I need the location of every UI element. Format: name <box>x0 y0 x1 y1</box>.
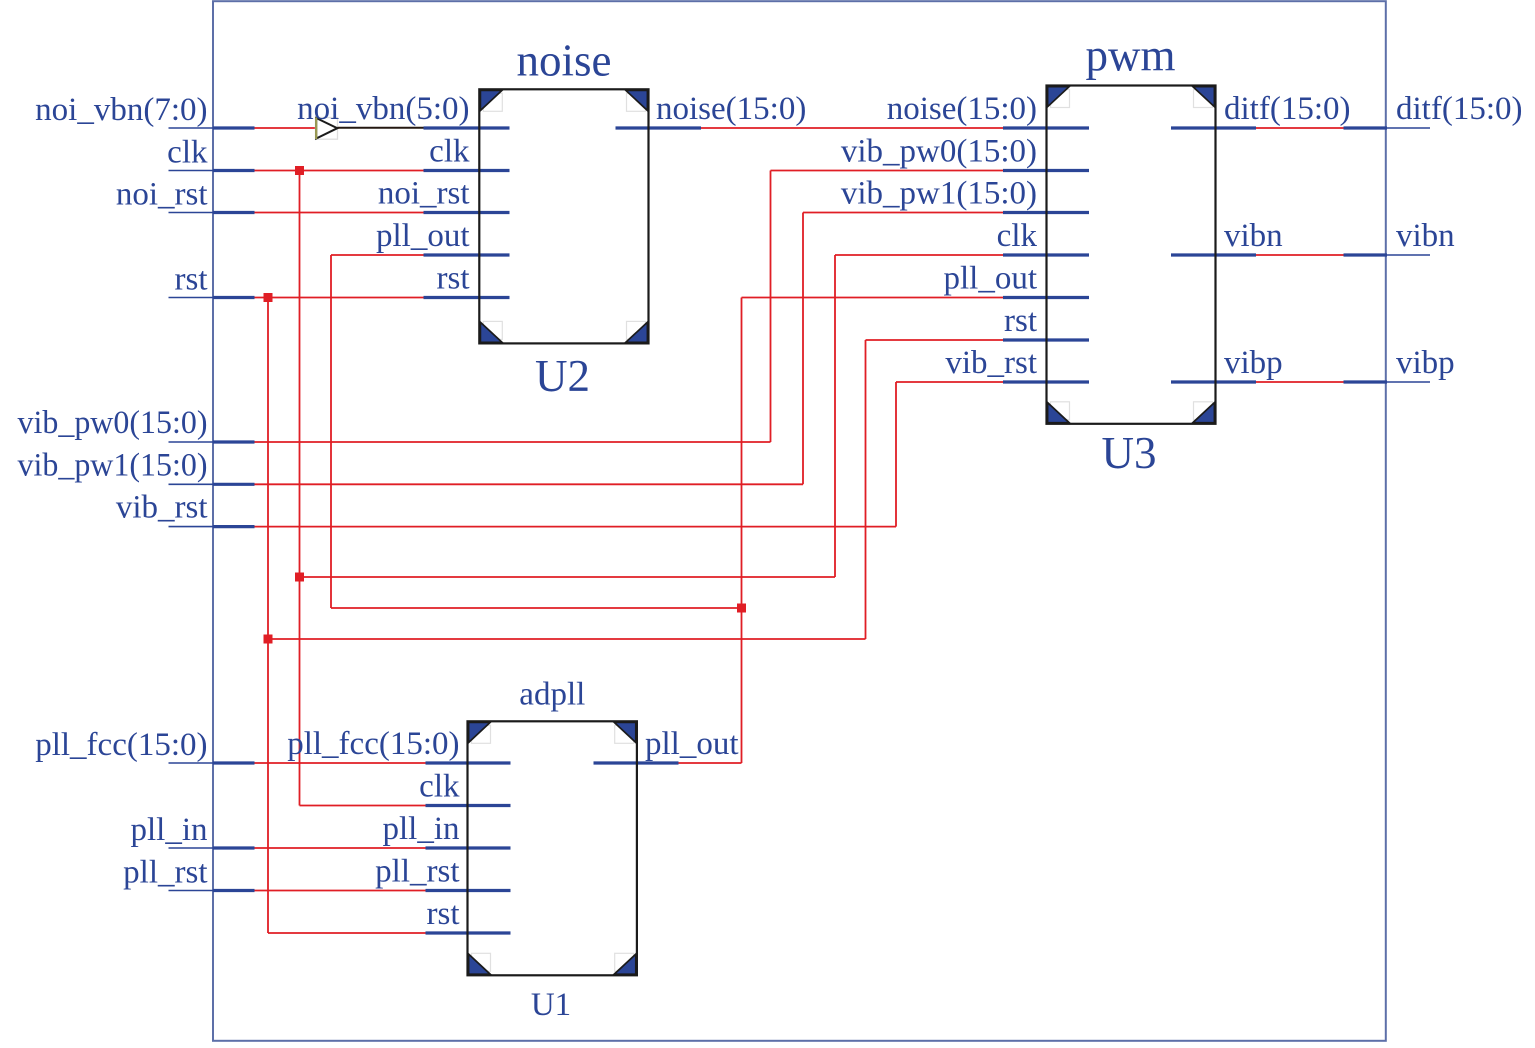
port stub U1 clk <box>426 804 511 807</box>
wire net rst ext to U2.rst <box>254 297 426 299</box>
port stub U1 pll_out out <box>594 761 679 764</box>
junction rst mid <box>264 635 273 644</box>
port stub U2 noise out <box>616 126 702 129</box>
U1 corner mark box bottom-left <box>472 953 491 971</box>
wire net vib_pw1 to U3.vib_pw1 <box>803 212 1005 214</box>
U3 corner mark box bottom-right <box>1194 402 1213 420</box>
port stub U1 pll_rst <box>426 889 511 892</box>
wire net vib_pw1 vertical riser <box>802 213 804 485</box>
wire net vib_pw1 ext horizontal <box>254 483 803 485</box>
svg-text:vib_pw1(15:0): vib_pw1(15:0) <box>841 176 1037 212</box>
svg-text:vib_pw0(15:0): vib_pw0(15:0) <box>841 134 1037 170</box>
wire net vib_rst vertical riser <box>895 382 897 527</box>
port lead outside vib_pw1 <box>169 483 214 485</box>
U1 corner mark box top-left <box>472 725 491 743</box>
wire net pll_in ext to U1.pll_in <box>254 847 426 849</box>
wire net ditf U3 out to border <box>1255 127 1345 129</box>
svg-text:clk: clk <box>429 134 470 170</box>
U2 corner triangle top-left <box>480 90 502 110</box>
svg-text:pwm: pwm <box>1086 31 1176 81</box>
svg-text:clk: clk <box>167 135 208 171</box>
U1 corner triangle bottom-right <box>614 954 636 974</box>
port stub U3 ditf out <box>1171 126 1256 129</box>
port lead outside vibp right <box>1387 381 1430 383</box>
port stub ext pll_in <box>213 846 255 849</box>
wire net pll_out vertical trunk <box>741 298 743 764</box>
wire net vib_rst to U3.vib_rst <box>896 381 1005 383</box>
port stub U2 noi_rst <box>424 211 510 214</box>
svg-text:U3: U3 <box>1102 428 1157 478</box>
port stub U3 vibn out <box>1171 253 1256 256</box>
wire net clk to U1.clk <box>300 805 426 807</box>
svg-text:clk: clk <box>419 769 460 805</box>
bus tap triangle left edge <box>315 118 317 140</box>
svg-text:pll_in: pll_in <box>382 811 459 847</box>
wire net clk mid horizontal <box>300 576 836 578</box>
port stub ext vib_rst <box>213 525 255 528</box>
sheet border <box>213 1 1386 1041</box>
svg-text:pll_rst: pll_rst <box>123 855 207 891</box>
port lead outside noi_vbn <box>169 127 214 129</box>
port stub U3 rst <box>1003 338 1089 341</box>
svg-text:vibn: vibn <box>1224 218 1283 254</box>
wire net vib_pw0 to U3.vib_pw0 <box>771 170 1006 172</box>
block U2 noise body <box>479 89 648 343</box>
wire net noi_rst ext to U2.noi_rst <box>254 212 426 214</box>
svg-text:noi_rst: noi_rst <box>378 176 470 212</box>
svg-text:adpll: adpll <box>519 677 585 713</box>
port stub ext pll_fcc <box>213 761 255 764</box>
bus tap shadow box on noi_vbn <box>316 118 338 140</box>
port stub ext noi_rst <box>213 211 255 214</box>
wire net noi_vbn horizontal <box>254 127 319 129</box>
svg-text:pll_out: pll_out <box>943 261 1037 297</box>
wire net clk vertical trunk <box>299 171 301 806</box>
port lead outside clk <box>169 170 214 172</box>
svg-text:rst: rst <box>175 262 208 298</box>
port stub ext clk <box>213 169 255 172</box>
U3 corner triangle bottom-left <box>1048 403 1070 423</box>
port stub U2 pll_out <box>424 253 510 256</box>
wire net clk ext to U2.clk <box>254 170 426 172</box>
port stub U3 vibp out <box>1171 380 1256 383</box>
U2 corner mark box top-left <box>483 93 502 111</box>
wire net vib_rst ext horizontal <box>254 526 896 528</box>
port lead outside vib_pw0 <box>169 441 214 443</box>
svg-text:pll_out: pll_out <box>645 726 739 762</box>
port lead outside pll_in <box>169 847 214 849</box>
svg-text:vib_pw1(15:0): vib_pw1(15:0) <box>18 447 208 483</box>
port stub ext vib_pw0 <box>213 440 255 443</box>
svg-text:noise(15:0): noise(15:0) <box>656 91 806 127</box>
port stub U3 pll_out <box>1003 296 1089 299</box>
svg-text:vibn: vibn <box>1396 218 1455 254</box>
U2 corner triangle bottom-left <box>480 322 502 342</box>
svg-text:pll_rst: pll_rst <box>375 854 459 890</box>
junction pll_out mid <box>737 604 746 613</box>
port stub ext ditf right <box>1344 126 1388 129</box>
svg-text:noi_vbn(7:0): noi_vbn(7:0) <box>35 92 207 128</box>
svg-text:vib_rst: vib_rst <box>116 490 208 526</box>
svg-text:noi_vbn(5:0): noi_vbn(5:0) <box>297 91 469 127</box>
junction clk mid <box>295 573 304 582</box>
port stub U3 noise <box>1003 126 1089 129</box>
port stub U1 pll_fcc <box>426 761 511 764</box>
wire net rst mid horizontal <box>268 638 866 640</box>
port stub U1 pll_in <box>426 846 511 849</box>
port stub U1 rst <box>426 931 511 934</box>
wire net rst riser to U3.rst <box>865 340 867 639</box>
block U1 adpll fill <box>468 721 637 975</box>
wire net clk riser to U3.clk <box>834 255 836 577</box>
svg-text:U2: U2 <box>535 351 590 401</box>
port stub ext vibn right <box>1344 253 1388 256</box>
wire net clk to U3.clk <box>835 254 1005 256</box>
U1 corner mark box top-right <box>615 725 634 743</box>
svg-text:U1: U1 <box>531 987 571 1023</box>
U2 corner mark box top-right <box>627 93 646 111</box>
port stub ext rst <box>213 296 255 299</box>
wire net vibn U3 out to border <box>1255 254 1345 256</box>
port lead outside pll_rst <box>169 890 214 892</box>
U2 corner triangle top-right <box>626 90 648 110</box>
U3 corner triangle bottom-right <box>1193 403 1215 423</box>
svg-text:noi_rst: noi_rst <box>116 177 208 213</box>
block U3 pwm fill <box>1047 86 1216 424</box>
block U3 pwm body <box>1047 86 1216 424</box>
wire net pll_out to U2.pll_out <box>331 254 426 256</box>
port lead outside vib_rst <box>169 526 214 528</box>
U2 corner mark box bottom-right <box>627 321 646 339</box>
wire net vib_pw0 ext horizontal <box>254 441 771 443</box>
svg-text:clk: clk <box>997 218 1038 254</box>
port stub U2 rst <box>424 296 510 299</box>
port stub ext vib_pw1 <box>213 483 255 486</box>
U3 corner mark box top-right <box>1194 90 1213 108</box>
U2 corner mark box bottom-left <box>483 321 502 339</box>
wire net vibp U3 out to border <box>1255 381 1345 383</box>
U1 corner triangle top-left <box>469 722 491 742</box>
svg-text:rst: rst <box>437 261 470 297</box>
junction clk at ext port <box>295 166 304 175</box>
svg-text:ditf(15:0): ditf(15:0) <box>1396 91 1522 127</box>
svg-text:noise: noise <box>517 36 612 86</box>
port stub ext noi_vbn(7:0) <box>213 126 255 129</box>
port stub U3 vib_pw0 <box>1003 169 1089 172</box>
wire net pll_out mid horizontal <box>331 607 742 609</box>
svg-text:rst: rst <box>427 896 460 932</box>
port lead outside rst <box>169 297 214 299</box>
wire net vib_pw0 vertical riser <box>770 171 772 443</box>
wire net pll_rst ext to U1.pll_rst <box>254 890 426 892</box>
port stub U3 vib_rst <box>1003 380 1089 383</box>
svg-text:pll_fcc(15:0): pll_fcc(15:0) <box>35 727 207 763</box>
wire net noise U2 out to U3 in <box>700 127 1005 129</box>
svg-text:pll_out: pll_out <box>376 218 470 254</box>
svg-text:rst: rst <box>1004 303 1037 339</box>
block U2 noise fill <box>479 89 648 343</box>
U1 corner mark box bottom-right <box>615 953 634 971</box>
wire net rst vertical trunk <box>267 298 269 934</box>
svg-text:vibp: vibp <box>1224 345 1283 381</box>
svg-text:pll_in: pll_in <box>130 812 207 848</box>
svg-text:pll_fcc(15:0): pll_fcc(15:0) <box>287 726 459 762</box>
U1 corner triangle top-right <box>614 722 636 742</box>
svg-text:vib_pw0(15:0): vib_pw0(15:0) <box>18 405 208 441</box>
wire net pll_out riser to U2.pll_out <box>330 255 332 608</box>
port lead outside noi_rst <box>169 212 214 214</box>
svg-text:noise(15:0): noise(15:0) <box>887 91 1037 127</box>
wire net rst to U1.rst <box>268 932 426 934</box>
wire net pll_out to U3.pll_out <box>742 297 1006 299</box>
block U1 adpll body <box>468 721 637 975</box>
port stub U2 noi_vbn <box>424 126 510 129</box>
U3 corner triangle top-left <box>1048 87 1070 107</box>
U3 corner mark box bottom-left <box>1051 402 1070 420</box>
port stub U2 clk <box>424 169 510 172</box>
wire net rst to U3.rst <box>866 339 1006 341</box>
U1 corner triangle bottom-left <box>469 954 491 974</box>
svg-text:ditf(15:0): ditf(15:0) <box>1224 91 1350 127</box>
U3 corner mark box top-left <box>1051 90 1070 108</box>
port lead outside pll_fcc <box>169 762 214 764</box>
bus tap triangle noi_vbn(7:0)->(5:0) <box>316 118 337 139</box>
U3 corner triangle top-right <box>1193 87 1215 107</box>
port lead outside ditf right <box>1387 127 1430 129</box>
wire net noi_vbn(5:0) dark segment <box>338 127 426 129</box>
port stub U3 vib_pw1 <box>1003 211 1089 214</box>
svg-text:vib_rst: vib_rst <box>945 345 1037 381</box>
junction rst at ext port <box>264 293 273 302</box>
port lead outside vibn right <box>1387 254 1430 256</box>
svg-text:vibp: vibp <box>1396 345 1455 381</box>
wire net pll_out U1 out segment <box>678 762 742 764</box>
wire net pll_fcc ext to U1.pll_fcc <box>254 762 426 764</box>
port stub U3 clk <box>1003 253 1089 256</box>
U2 corner triangle bottom-right <box>626 322 648 342</box>
port stub ext pll_rst <box>213 889 255 892</box>
port stub ext vibp right <box>1344 380 1388 383</box>
